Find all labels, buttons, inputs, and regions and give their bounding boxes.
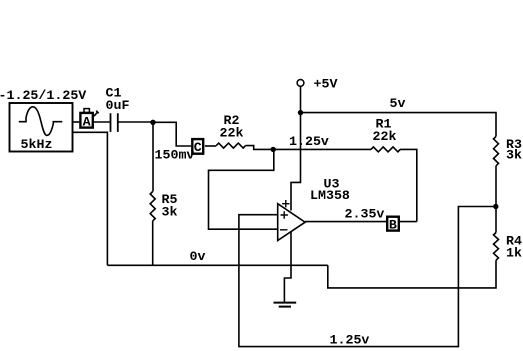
capacitor C1 bbox=[106, 85, 130, 132]
wire 0v rail bbox=[107, 264, 327, 266]
junction 5v rail bbox=[298, 110, 303, 115]
svg-text:+5V: +5V bbox=[314, 76, 338, 91]
wire inverting node to resistor R1 bbox=[273, 148, 371, 150]
resistor R2 bbox=[216, 113, 245, 148]
wire junction to node C bbox=[153, 122, 191, 146]
svg-text:C: C bbox=[194, 140, 202, 155]
resistor R1 bbox=[371, 116, 400, 152]
node C bbox=[192, 139, 203, 155]
svg-text:1.25v: 1.25v bbox=[330, 333, 370, 348]
wire op-amp V- pin to ground bbox=[284, 232, 291, 302]
wire divider junction to resistor R4 bbox=[495, 207, 497, 233]
wire inverting node feedback path to op-amp minus input bbox=[209, 149, 278, 229]
wire +5V down to op-amp V+ pin bbox=[291, 113, 301, 211]
node B bbox=[387, 217, 399, 233]
junction after capacitor bbox=[150, 120, 155, 125]
svg-text:LM358: LM358 bbox=[310, 188, 350, 203]
resistor R5 bbox=[150, 192, 177, 221]
svg-text:22k: 22k bbox=[220, 125, 244, 140]
wire divider tap to bottom 1.25v feedback bbox=[239, 207, 496, 347]
+5V terminal bbox=[297, 76, 337, 91]
svg-text:-1.25/1.25V: -1.25/1.25V bbox=[0, 88, 86, 103]
svg-text:0v: 0v bbox=[190, 249, 206, 264]
svg-text:2.35v: 2.35v bbox=[345, 207, 385, 222]
wire R4 bottom to 0v step bbox=[328, 260, 496, 288]
resistor R4 bbox=[494, 233, 522, 261]
wire +5V terminal stem to 5v rail junction bbox=[300, 86, 302, 113]
svg-text:5v: 5v bbox=[390, 96, 406, 111]
op-amp U3 bbox=[278, 177, 350, 241]
wire node A to capacitor C1 bbox=[94, 121, 110, 123]
svg-text:0uF: 0uF bbox=[106, 98, 130, 113]
wire R5 top from junction bbox=[152, 122, 154, 191]
ground bbox=[274, 303, 297, 307]
wire R5 bottom to 0v rail bbox=[152, 221, 154, 265]
wire node C to resistor R2 bbox=[205, 145, 216, 147]
svg-text:150mv: 150mv bbox=[155, 147, 195, 162]
wire capacitor to junction bbox=[118, 121, 153, 123]
svg-text:B: B bbox=[389, 218, 397, 233]
svg-text:22k: 22k bbox=[373, 129, 397, 144]
wire 5v rail to resistor R3 bbox=[301, 113, 497, 137]
svg-text:1k: 1k bbox=[506, 246, 522, 261]
svg-text:A: A bbox=[83, 114, 91, 129]
wire R3 bottom to divider junction bbox=[495, 166, 497, 207]
wire op-amp output to node B bbox=[305, 221, 387, 223]
junction divider node bbox=[493, 204, 498, 209]
wire R2 to inverting node junction bbox=[246, 146, 274, 150]
wire node B to R1 vertical bbox=[400, 221, 417, 223]
svg-text:5kHz: 5kHz bbox=[21, 137, 53, 152]
node A bbox=[80, 109, 98, 130]
svg-text:1.25v: 1.25v bbox=[289, 134, 329, 149]
junction inverting node bbox=[271, 147, 276, 152]
svg-text:3k: 3k bbox=[506, 148, 522, 163]
wire source bottom terminal down to 0v rail bbox=[73, 132, 108, 265]
svg-text:3k: 3k bbox=[162, 205, 178, 220]
resistor R3 bbox=[494, 136, 522, 165]
wire source top terminal to node A bbox=[73, 121, 80, 123]
wire R1 right to node B wire bbox=[400, 149, 417, 221]
voltage source V1 sine symbol bbox=[10, 103, 73, 152]
